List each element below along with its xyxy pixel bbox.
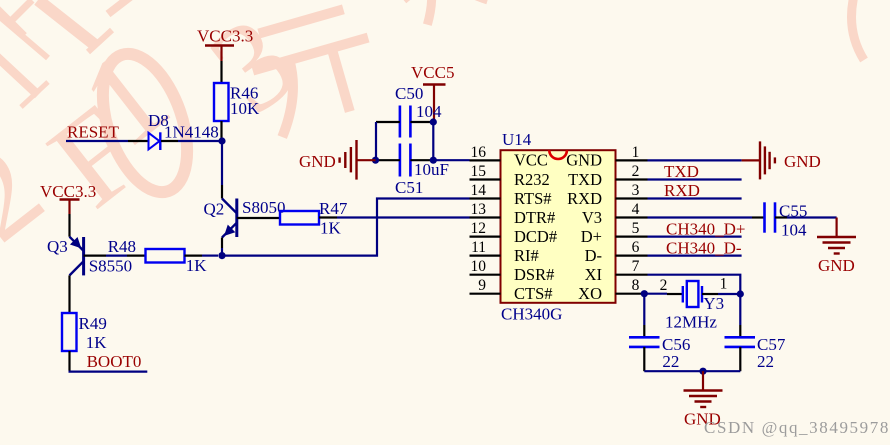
wire BOOT0 (69, 371, 148, 373)
pin 8 XO (578, 277, 647, 303)
svg-text:GND: GND (566, 151, 602, 170)
svg-text:R48: R48 (108, 237, 136, 256)
wire cap right vertical (432, 122, 434, 160)
wire TXD (648, 178, 742, 180)
svg-text:RXD: RXD (567, 189, 602, 208)
capacitor C55 (765, 202, 808, 240)
svg-text:CH340G: CH340G (501, 305, 562, 324)
svg-text:16: 16 (471, 144, 487, 161)
wire RTS# net (222, 199, 470, 256)
svg-text:VCC3.3: VCC3.3 (40, 182, 96, 201)
wire C51 left (376, 159, 400, 161)
svg-text:CTS#: CTS# (514, 284, 553, 303)
watermark glyph 0 (87, 43, 204, 203)
capacitor C51 10uF (395, 144, 449, 198)
wire R48 to junction (185, 255, 203, 257)
svg-text:1K: 1K (320, 219, 342, 238)
watermark glyph KAI (243, 5, 388, 140)
svg-text:GND: GND (784, 152, 821, 171)
wire to pin16 (433, 159, 469, 161)
svg-text:Q2: Q2 (204, 200, 225, 219)
wire XI down to C57 (739, 294, 741, 325)
watermark corner strokes (0, 0, 134, 107)
svg-text:1N4148: 1N4148 (164, 123, 219, 142)
svg-text:7: 7 (632, 258, 640, 275)
pin 7 XI (585, 258, 648, 284)
wire crystal pin1 (702, 293, 718, 295)
svg-text:CH340_D-: CH340_D- (666, 239, 742, 258)
svg-text:10: 10 (471, 258, 487, 275)
node Q2 emitter junction (218, 252, 225, 259)
ground GND below C55 (817, 218, 856, 276)
wire junction to Q2 collector (221, 185, 223, 199)
capacitor C50 (395, 84, 442, 138)
svg-text:12: 12 (471, 220, 487, 237)
pin 6 D- (585, 239, 648, 265)
svg-text:VCC: VCC (514, 151, 548, 170)
wire Q3 collector down (68, 275, 70, 313)
pin 16 VCC (470, 144, 548, 170)
svg-text:XI: XI (585, 265, 602, 284)
svg-text:11: 11 (471, 239, 486, 256)
wire diode to junction (161, 140, 178, 142)
pin 10 DSR# (470, 258, 555, 284)
svg-text:DTR#: DTR# (514, 208, 555, 227)
svg-text:1: 1 (632, 144, 640, 161)
wire C57 to rail (739, 347, 741, 371)
svg-text:XO: XO (578, 284, 602, 303)
wire R47 to DTR# (319, 216, 337, 218)
svg-text:1K: 1K (186, 256, 208, 275)
wire C50 right to VCC5 (410, 121, 433, 123)
diode D8 (148, 111, 219, 150)
resistor R46 (214, 83, 260, 121)
svg-text:5: 5 (632, 220, 640, 237)
wire D- (648, 255, 742, 257)
svg-text:C51: C51 (395, 178, 423, 197)
svg-text:BOOT0: BOOT0 (87, 352, 142, 371)
pin 9 CTS# (470, 277, 553, 303)
svg-text:1: 1 (720, 276, 728, 293)
IC U14 CH340G (501, 130, 616, 324)
wire cap left vertical (375, 122, 377, 160)
pin 3 RXD (567, 182, 647, 208)
svg-text:R47: R47 (319, 199, 348, 218)
pin 15 R232 (470, 163, 550, 189)
wire V3 to C55 (648, 216, 753, 218)
svg-text:TXD: TXD (568, 170, 602, 189)
pin 11 RI# (470, 239, 539, 265)
pin 14 RTS# (470, 182, 552, 208)
svg-text:2: 2 (660, 277, 668, 294)
capacitor C56 (629, 335, 690, 371)
wire Q3 base to R48 (84, 255, 106, 257)
wire D+ (648, 236, 742, 238)
wire VCC3.3 to R46 (220, 61, 222, 83)
svg-text:CSDN @qq_38495978: CSDN @qq_38495978 (704, 418, 890, 437)
capacitor C57 (725, 335, 786, 371)
svg-text:104: 104 (781, 221, 807, 240)
wire Q2 emitter down (221, 238, 223, 249)
wire XO to crystal (648, 293, 668, 295)
resistor R48 (108, 237, 208, 275)
svg-text:VCC5: VCC5 (411, 63, 454, 82)
ground GND left of C50 (299, 140, 376, 180)
wire XI to crystal (648, 275, 741, 294)
svg-text:104: 104 (416, 102, 442, 121)
wire Q2 base to R47 (237, 217, 280, 219)
svg-text:GND: GND (818, 256, 855, 275)
svg-text:V3: V3 (582, 208, 602, 227)
svg-text:13: 13 (471, 201, 487, 218)
ground GND right of pin1 (742, 141, 821, 179)
svg-text:14: 14 (471, 182, 487, 199)
wire VCC3.3 to Q3 emitter (68, 214, 70, 237)
pin 1 GND (566, 144, 647, 170)
svg-text:VCC3.3: VCC3.3 (197, 27, 253, 46)
svg-text:S8550: S8550 (89, 257, 132, 276)
svg-text:Q3: Q3 (47, 237, 68, 256)
resistor R47 (280, 199, 348, 238)
svg-text:R49: R49 (79, 314, 107, 333)
power VCC3.3 left (40, 182, 96, 214)
svg-text:15: 15 (471, 163, 487, 180)
wire R49 to BOOT0 rail (68, 351, 70, 371)
pin 12 DCD# (470, 220, 558, 246)
node XO junction (641, 290, 648, 297)
svg-text:22: 22 (757, 352, 774, 371)
svg-text:RTS#: RTS# (514, 189, 552, 208)
svg-text:Y3: Y3 (703, 294, 724, 313)
node rail junction (699, 368, 706, 375)
watermark glyph FA (395, 0, 490, 29)
power VCC3.3 top (197, 27, 253, 62)
node C51 right junction (430, 157, 437, 164)
svg-text:RXD: RXD (664, 181, 700, 200)
svg-text:GND: GND (299, 152, 336, 171)
svg-text:10K: 10K (230, 99, 260, 118)
svg-text:C50: C50 (395, 84, 423, 103)
wire RESET (66, 140, 128, 142)
wire ground rail (644, 370, 740, 372)
pin 2 TXD (568, 163, 647, 189)
node XI junction (737, 290, 744, 297)
wire C51 right (410, 159, 433, 161)
svg-text:U14: U14 (502, 130, 532, 149)
resistor R49 (62, 313, 107, 352)
pin 4 V3 (582, 201, 648, 227)
transistor Q3 (47, 237, 132, 276)
svg-text:3: 3 (632, 182, 640, 199)
svg-text:4: 4 (632, 201, 640, 218)
ground GND bottom (684, 371, 723, 428)
svg-text:D-: D- (585, 246, 602, 265)
wire C56 to rail (643, 347, 645, 371)
wire pin1 to GND (648, 159, 742, 161)
svg-text:1K: 1K (86, 333, 108, 352)
watermark top-right curl (852, 0, 865, 60)
svg-text:DCD#: DCD# (514, 227, 557, 246)
svg-text:RI#: RI# (514, 246, 539, 265)
svg-text:6: 6 (632, 239, 640, 256)
svg-text:TXD: TXD (664, 162, 699, 181)
watermark glyphs (0, 0, 322, 268)
svg-text:2: 2 (632, 163, 640, 180)
svg-text:D+: D+ (581, 227, 602, 246)
svg-text:12MHz: 12MHz (665, 313, 717, 332)
svg-text:CH340_D+: CH340_D+ (666, 220, 745, 239)
transistor Q2 (204, 198, 286, 238)
crystal Y3 (660, 276, 728, 332)
svg-text:DSR#: DSR# (514, 265, 554, 284)
pin 5 D+ (581, 220, 648, 246)
wire C55 to GND corner (775, 216, 787, 218)
node GND junction left (372, 157, 379, 164)
wire RESET to diode (128, 140, 149, 142)
svg-text:22: 22 (662, 352, 679, 371)
svg-text:9: 9 (478, 277, 486, 294)
svg-text:RESET: RESET (67, 123, 120, 142)
pin 13 DTR# (470, 201, 556, 227)
node RESET junction (218, 137, 225, 144)
wire C50 left (376, 121, 400, 123)
wire RXD (648, 197, 742, 199)
svg-text:R232: R232 (514, 170, 550, 189)
power VCC5 (411, 63, 454, 122)
node VCC5 junction (430, 118, 437, 125)
svg-text:8: 8 (632, 277, 640, 294)
wire R46 bottom pin (220, 121, 222, 141)
wire XO down to C56 (643, 294, 645, 325)
